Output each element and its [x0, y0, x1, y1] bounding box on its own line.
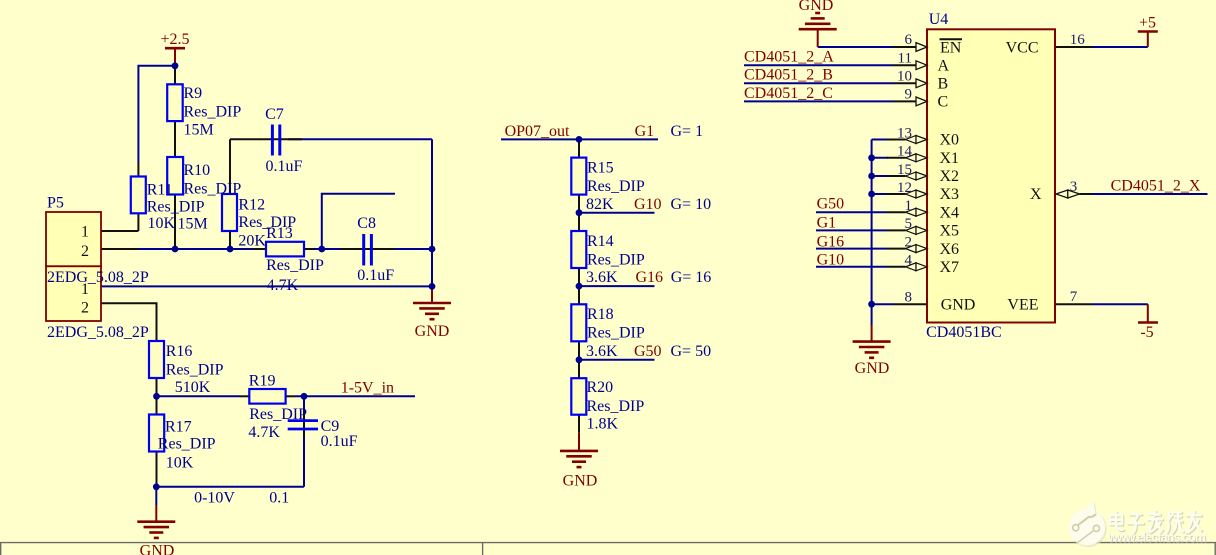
svg-text:G50: G50 [817, 195, 845, 212]
svg-text:3.6K: 3.6K [586, 269, 618, 286]
svg-text:VCC: VCC [1006, 39, 1039, 56]
svg-text:10K: 10K [148, 215, 176, 232]
svg-text:R19: R19 [249, 372, 276, 389]
svg-text:X4: X4 [940, 204, 960, 221]
svg-text:R10: R10 [184, 162, 211, 179]
svg-text:G16: G16 [817, 233, 845, 250]
svg-text:Res_DIP: Res_DIP [587, 251, 645, 268]
svg-text:GND: GND [415, 323, 450, 340]
svg-text:GND: GND [855, 360, 890, 377]
svg-text:15: 15 [897, 162, 912, 178]
svg-text:+2.5: +2.5 [160, 31, 189, 48]
svg-text:Res_DIP: Res_DIP [166, 361, 224, 378]
svg-text:OP07_out: OP07_out [505, 123, 570, 140]
svg-text:2EDG_5.08_2P: 2EDG_5.08_2P [47, 324, 149, 341]
svg-text:15M: 15M [184, 122, 214, 139]
svg-text:0.1: 0.1 [269, 490, 289, 507]
svg-text:R20: R20 [587, 379, 614, 396]
svg-text:20K: 20K [238, 233, 266, 250]
svg-text:R12: R12 [238, 197, 265, 214]
svg-text:1-5V_in: 1-5V_in [341, 380, 394, 397]
svg-text:8: 8 [905, 290, 913, 306]
svg-text:C: C [938, 94, 949, 111]
svg-text:Res_DIP: Res_DIP [266, 257, 324, 274]
svg-text:Res_DIP: Res_DIP [158, 435, 216, 452]
svg-text:-5: -5 [1140, 324, 1153, 341]
svg-text:Res_DIP: Res_DIP [587, 178, 645, 195]
svg-text:G1: G1 [635, 123, 655, 140]
svg-text:CD4051_2_A: CD4051_2_A [744, 49, 834, 66]
svg-text:G1: G1 [817, 215, 837, 232]
svg-text:0.1uF: 0.1uF [266, 158, 303, 175]
svg-text:510K: 510K [175, 379, 211, 396]
svg-text:C7: C7 [265, 106, 284, 123]
svg-text:X2: X2 [940, 168, 960, 185]
svg-text:2EDG_5.08_2P: 2EDG_5.08_2P [47, 269, 149, 286]
svg-text:G50: G50 [634, 343, 662, 360]
svg-text:R17: R17 [165, 419, 192, 436]
svg-text:11: 11 [898, 50, 912, 66]
svg-text:P5: P5 [47, 194, 64, 211]
svg-text:10: 10 [897, 69, 912, 85]
svg-text:3.6K: 3.6K [586, 343, 618, 360]
svg-text:X: X [1030, 186, 1042, 203]
svg-text:0.1uF: 0.1uF [321, 433, 358, 450]
svg-text:A: A [938, 57, 950, 74]
svg-text:R13: R13 [266, 225, 293, 242]
svg-text:G10: G10 [634, 196, 662, 213]
svg-text:CD4051BC: CD4051BC [926, 324, 1002, 341]
svg-text:1: 1 [81, 224, 89, 241]
svg-text:15M: 15M [178, 215, 208, 232]
svg-text:R15: R15 [587, 159, 614, 176]
svg-text:6: 6 [905, 32, 913, 48]
svg-text:10K: 10K [166, 455, 194, 472]
svg-text:7: 7 [1070, 289, 1078, 305]
svg-text:16: 16 [1070, 32, 1086, 48]
svg-text:G= 1: G= 1 [671, 123, 704, 140]
svg-text:www.elecfans.com: www.elecfans.com [1107, 531, 1206, 545]
svg-text:G= 50: G= 50 [671, 343, 712, 360]
svg-text:X6: X6 [940, 241, 960, 258]
svg-text:82K: 82K [586, 196, 614, 213]
svg-text:2: 2 [81, 243, 89, 260]
svg-text:12: 12 [897, 180, 912, 196]
svg-text:G16: G16 [636, 269, 664, 286]
svg-text:Res_DIP: Res_DIP [147, 198, 205, 215]
svg-text:4: 4 [905, 253, 913, 269]
svg-text:4.7K: 4.7K [267, 277, 299, 294]
svg-text:X5: X5 [940, 223, 960, 240]
svg-text:9: 9 [905, 87, 913, 103]
svg-text:R14: R14 [587, 233, 614, 250]
svg-text:X7: X7 [940, 259, 960, 276]
svg-text:+5: +5 [1139, 15, 1156, 32]
svg-text:R16: R16 [166, 343, 193, 360]
svg-text:G= 16: G= 16 [671, 269, 712, 286]
svg-text:1: 1 [905, 198, 913, 214]
svg-text:X3: X3 [940, 186, 960, 203]
svg-text:GND: GND [140, 542, 175, 555]
svg-text:VEE: VEE [1007, 296, 1038, 313]
svg-text:GND: GND [941, 296, 976, 313]
svg-text:CD4051_2_C: CD4051_2_C [744, 85, 833, 102]
svg-text:U4: U4 [929, 11, 949, 28]
svg-text:GND: GND [563, 473, 598, 490]
svg-text:1.8K: 1.8K [587, 416, 619, 433]
svg-text:CD4051_2_B: CD4051_2_B [744, 67, 833, 84]
svg-text:X0: X0 [940, 132, 960, 149]
svg-text:EN: EN [940, 39, 962, 56]
svg-text:Res_DIP: Res_DIP [184, 104, 242, 121]
svg-text:2: 2 [905, 234, 913, 250]
svg-text:2: 2 [81, 300, 89, 317]
svg-text:Res_DIP: Res_DIP [587, 398, 645, 415]
svg-text:R18: R18 [587, 306, 614, 323]
svg-text:CD4051_2_X: CD4051_2_X [1111, 178, 1201, 195]
svg-text:B: B [938, 76, 949, 93]
svg-text:X1: X1 [940, 150, 960, 167]
svg-text:0-10V: 0-10V [194, 490, 235, 507]
svg-text:3: 3 [1070, 179, 1078, 195]
svg-text:5: 5 [905, 216, 913, 232]
svg-text:13: 13 [897, 125, 912, 141]
svg-text:Res_DIP: Res_DIP [587, 325, 645, 342]
svg-text:GND: GND [799, 0, 834, 14]
svg-text:Res_DIP: Res_DIP [184, 181, 242, 198]
svg-text:Res_DIP: Res_DIP [249, 406, 307, 423]
svg-text:4.7K: 4.7K [248, 424, 280, 441]
svg-text:C8: C8 [357, 215, 376, 232]
svg-text:G= 10: G= 10 [671, 196, 712, 213]
svg-text:14: 14 [897, 144, 913, 160]
svg-text:G10: G10 [817, 251, 845, 268]
svg-text:R11: R11 [147, 182, 173, 199]
svg-text:R9: R9 [184, 85, 203, 102]
svg-text:0.1uF: 0.1uF [357, 267, 394, 284]
